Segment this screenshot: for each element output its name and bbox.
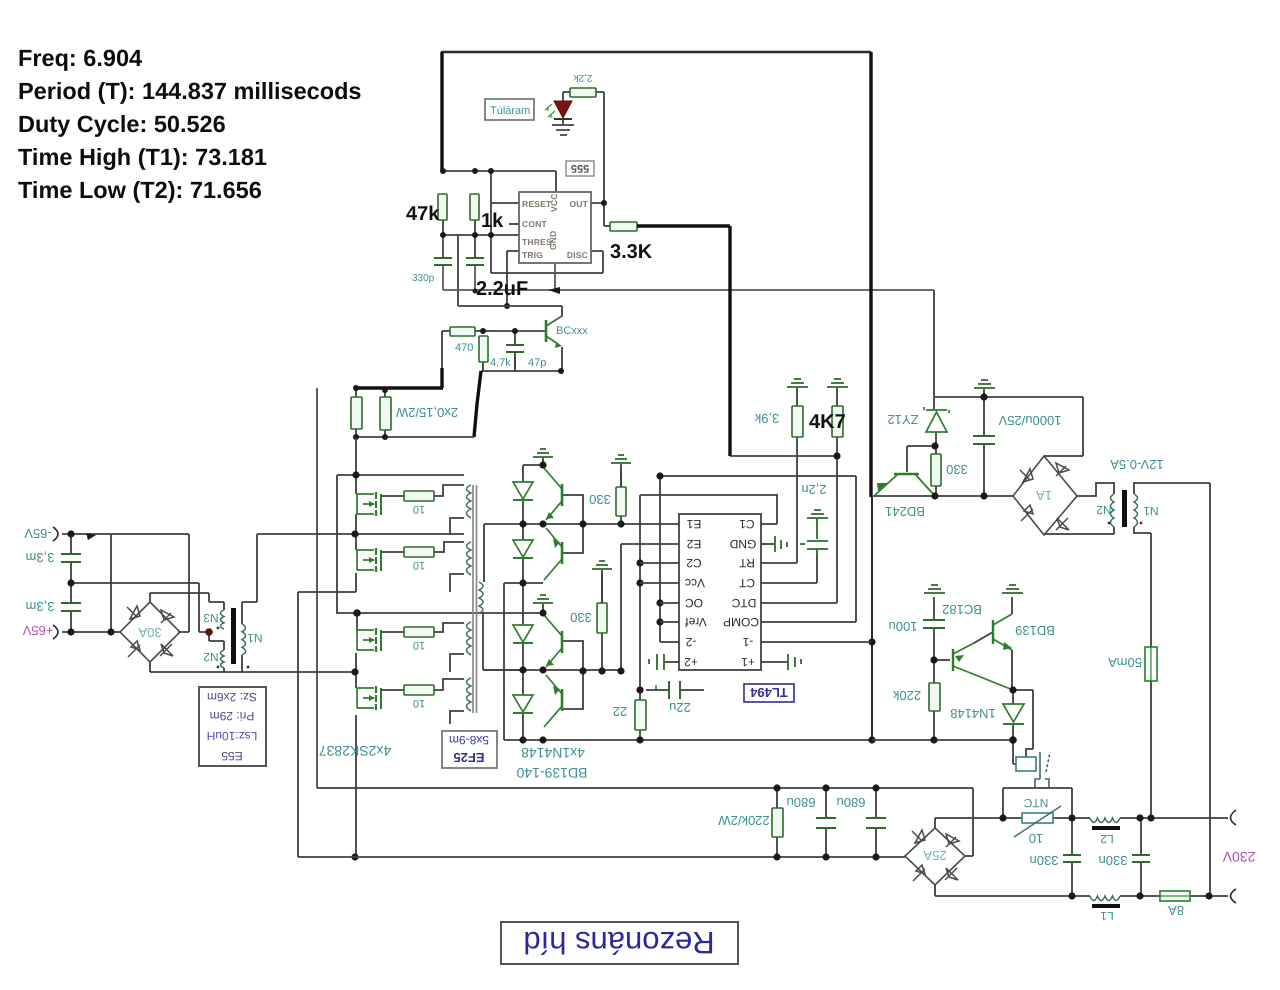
wire +65V rail 632 <box>62 631 209 633</box>
node dots diode block <box>519 461 875 743</box>
node dots mains <box>773 784 1212 899</box>
resistor 47k <box>438 194 447 220</box>
inductor L2 <box>1090 818 1120 823</box>
wire -2 stub <box>660 641 679 643</box>
node dots bc182 block <box>930 656 1016 743</box>
wire c1 loop riser x640 <box>639 495 641 740</box>
wire 680u a leads <box>825 788 827 857</box>
wire zener to node <box>935 432 937 446</box>
svg-text:-2: -2 <box>685 635 696 649</box>
diode D2 1N4148 <box>513 540 533 558</box>
capacitor 100u <box>923 620 945 628</box>
resistor 4K7 <box>832 406 843 437</box>
wire trig drop <box>507 251 519 306</box>
svg-text:220k: 220k <box>892 688 921 703</box>
capacitor 3,3m a <box>61 554 81 562</box>
wire lower mid row 670 <box>483 669 621 671</box>
wire bridge30 top jog to N3 <box>150 593 224 610</box>
wire zener feed x934 <box>933 290 935 409</box>
wire 220k leads <box>933 660 935 740</box>
wire bd139 emitter to node <box>1011 650 1013 690</box>
label box E55 <box>199 687 266 766</box>
svg-text:BD241: BD241 <box>885 504 925 519</box>
svg-text:CONT: CONT <box>522 219 547 229</box>
svg-text:TL494: TL494 <box>749 685 787 700</box>
node dots mosfet rails <box>351 471 360 860</box>
transformer EF25 coil3 <box>467 622 472 655</box>
diode D1 1N4148 <box>513 482 533 500</box>
wire gnd row 290 <box>443 235 934 291</box>
svg-text:25A: 25A <box>923 848 946 863</box>
ground above 1000u <box>974 380 995 388</box>
wire thres row <box>443 220 519 258</box>
svg-text:100u: 100u <box>889 619 918 634</box>
wire -1 stub <box>761 641 871 643</box>
svg-text:GND: GND <box>729 537 756 551</box>
wire 330a leads <box>620 470 622 524</box>
SEC:BC182 <box>872 597 1033 764</box>
transistor M2 2SK2837 <box>357 548 404 572</box>
resistor Rg1 10 <box>404 491 434 515</box>
diode 1N4148 relay <box>1003 704 1024 724</box>
phase dots 12V <box>1108 522 1111 525</box>
capacitor 330p <box>434 258 452 265</box>
wire N1 top to right rail <box>1134 483 1210 896</box>
capacitor 47p <box>506 345 524 352</box>
svg-text:N2: N2 <box>1096 503 1112 517</box>
wire mains live row 818 <box>935 817 1228 819</box>
resistor 330 lower <box>597 603 607 633</box>
wire node row 496 <box>873 495 1013 497</box>
wire relay left leg <box>1013 740 1016 764</box>
node dots 555 <box>440 168 607 309</box>
connector mains live <box>1231 810 1237 825</box>
svg-text:E55: E55 <box>221 749 243 763</box>
connector mains neutral <box>1231 889 1237 903</box>
transistor T4 BD140 <box>544 675 562 727</box>
capacitor 1000u/25V <box>973 436 995 444</box>
transformer 12V core <box>1122 490 1127 527</box>
svg-text:8A: 8A <box>1168 903 1184 918</box>
transistor M1 2SK2837 <box>357 492 404 516</box>
svg-text:330p: 330p <box>412 273 435 284</box>
wire C1 stub loop <box>761 495 777 524</box>
svg-text:N1: N1 <box>247 631 263 645</box>
svg-text:3,3m: 3,3m <box>26 550 55 565</box>
SEC:MAINS <box>298 788 1228 896</box>
svg-text:1000u/25V: 1000u/25V <box>998 413 1061 428</box>
capacitor +1 pin <box>788 654 801 670</box>
op-amp U2 TL494 body <box>679 514 761 670</box>
wire reset/disc riser <box>491 171 603 273</box>
transformer E55 core <box>231 608 236 664</box>
wire bc collector/emitter <box>561 306 563 371</box>
node dots right power <box>931 393 987 499</box>
wire gate steps c1 <box>434 485 464 496</box>
capacitor 22u <box>669 681 680 699</box>
svg-text:L2: L2 <box>1100 832 1114 846</box>
wire top supply rail <box>441 51 871 53</box>
wire coil2 return <box>450 574 464 592</box>
label box TL494 <box>744 684 794 702</box>
resistor 22 <box>635 700 646 730</box>
wire thick emitter drop <box>474 371 481 437</box>
wire cap stack <box>70 534 72 632</box>
svg-text:4x2SK2837: 4x2SK2837 <box>319 743 392 759</box>
capacitor 2.2uF <box>466 258 484 265</box>
svg-text:Freq: 6.904: Freq: 6.904 <box>18 45 142 71</box>
svg-text:N2: N2 <box>203 650 219 664</box>
thermistor NTC <box>1022 813 1053 823</box>
relay contact <box>1035 752 1049 788</box>
ground above 3,9k <box>787 379 808 387</box>
svg-text:47p: 47p <box>528 357 546 369</box>
wire bridge30 bottom jog <box>149 662 151 672</box>
wire DTC stub riser <box>761 437 837 603</box>
resistor 2,2k <box>570 88 596 97</box>
wire x337 drop <box>336 475 338 613</box>
wire coil1 return <box>450 518 464 534</box>
svg-text:Sz: 2x6m: Sz: 2x6m <box>207 690 257 704</box>
svg-text:2.2uF: 2.2uF <box>476 278 528 300</box>
svg-text:E1: E1 <box>686 517 701 531</box>
capacitor 330n b <box>1132 855 1150 862</box>
wire bc182-bd139 link <box>974 632 993 643</box>
wire m3 legs <box>356 613 357 672</box>
wire thres-to-306 jog <box>457 235 459 306</box>
wire led top <box>563 92 570 101</box>
wire secondary bottom lead <box>483 613 523 670</box>
transistor T3 BD139 <box>544 615 562 667</box>
svg-text:1k: 1k <box>481 210 504 232</box>
wire mid row 583 <box>504 583 543 740</box>
transformer EF25 coil1 <box>467 485 472 518</box>
wire dc+ rail 788 <box>317 787 973 789</box>
svg-text:BCxxx: BCxxx <box>556 325 588 337</box>
capacitor GND pin <box>775 536 787 552</box>
svg-text:EF25: EF25 <box>453 750 484 765</box>
wire secondary top lead <box>483 524 485 582</box>
resistor Rg4 10 <box>404 685 434 709</box>
wire bridge1A right step <box>1077 483 1114 496</box>
svg-text:BD139: BD139 <box>1015 623 1055 638</box>
bridge rectifier 30A <box>120 602 180 662</box>
svg-text:OUT: OUT <box>569 199 588 209</box>
resistor 470 <box>450 327 475 336</box>
svg-text:10: 10 <box>1029 831 1043 846</box>
wire 330c leads <box>935 446 937 496</box>
svg-text:4,7k: 4,7k <box>490 357 511 369</box>
svg-text:+65V: +65V <box>22 623 53 638</box>
wire GND stub cap <box>761 543 774 545</box>
wire fuse to mains <box>1150 681 1152 818</box>
wire N2 bottom <box>223 668 225 672</box>
wire 0V row 583 <box>71 583 199 632</box>
connector +65V <box>53 625 58 639</box>
wire gate steps c4 <box>434 679 464 690</box>
svg-text:230V: 230V <box>1222 849 1255 865</box>
wire bridge25 bottom jog <box>934 885 936 896</box>
wire -65V rail <box>62 534 189 632</box>
wire bridge1A bottom leg <box>1043 534 1045 535</box>
SEC:BCXXX <box>442 306 562 371</box>
wire 330n a column <box>1071 818 1073 896</box>
transformer 12V N2 coil <box>1111 494 1115 527</box>
capacitor +2 pin <box>649 654 664 670</box>
transistor BC182 <box>953 643 1013 690</box>
wire left drop x317 <box>316 388 318 788</box>
ground above 330 upper <box>611 455 631 463</box>
ground above 330 lower <box>592 561 612 569</box>
transformer E55 N3 coil <box>221 610 225 629</box>
svg-text:1A: 1A <box>1036 488 1052 503</box>
transistor T2 BD140 <box>544 528 562 580</box>
wire bridge1A top link <box>1044 455 1083 457</box>
svg-text:Rezonáns híd: Rezonáns híd <box>523 925 714 960</box>
wire 680u b leads <box>875 788 877 857</box>
transformer EF25 coil2 <box>467 542 472 575</box>
wire loop row 495 <box>640 494 778 496</box>
wire bridge25 top link <box>934 818 936 828</box>
label box Rezonans hid <box>501 922 738 964</box>
SEC:MOSFET <box>150 437 543 857</box>
svg-text:NTC: NTC <box>1023 796 1048 810</box>
wire thick 470-drop <box>356 368 443 388</box>
wire out node <box>591 92 610 226</box>
capacitor 330n a <box>1063 855 1081 862</box>
ground above T1 <box>533 449 553 457</box>
wire N1 top riser <box>242 534 257 624</box>
svg-text:TRIG: TRIG <box>522 250 543 260</box>
wire top node row <box>523 464 543 466</box>
wire E2 drop <box>620 544 622 671</box>
svg-text:DTC: DTC <box>731 596 756 610</box>
capacitor 2,2n <box>807 510 828 518</box>
wire N1 bottom to fuse <box>1134 527 1151 647</box>
ground above 4K7 <box>827 379 848 387</box>
wire 1000u stem <box>983 397 985 496</box>
svg-text:BD139-140: BD139-140 <box>516 765 587 781</box>
svg-text:Time Low (T2): 71.656: Time Low (T2): 71.656 <box>18 177 262 203</box>
wire N1 bottom <box>241 655 243 672</box>
fuse 50mA <box>1145 647 1157 681</box>
wire gate steps c2 <box>434 542 464 552</box>
svg-text:VCC: VCC <box>549 193 559 212</box>
wire 100u stem <box>933 597 935 660</box>
wire vref/oc riser x660 <box>659 476 661 642</box>
wire row 534 <box>257 533 464 535</box>
diode D4 1N4148 <box>513 695 533 713</box>
svg-text:Duty Cycle: 50.526: Duty Cycle: 50.526 <box>18 111 226 137</box>
transistor M4 2SK2837 <box>357 686 404 710</box>
resistor 330 right <box>931 454 941 486</box>
svg-text:22u: 22u <box>669 700 691 715</box>
capacitor 3,3m b <box>61 603 81 611</box>
transistor M3 2SK2837 <box>357 628 404 652</box>
ground above BD139 <box>1002 585 1023 593</box>
svg-text:4x1N4148: 4x1N4148 <box>521 745 585 761</box>
wire drive row E1 524 <box>484 523 679 525</box>
wire row 672 N1 return <box>150 671 356 673</box>
svg-text:50mA: 50mA <box>1108 655 1142 670</box>
svg-text:CT: CT <box>738 576 755 590</box>
wire resistor bottoms row 437 <box>356 388 474 437</box>
wire 220k2w leads <box>776 788 778 857</box>
wire thick left drop to 47k node <box>440 52 443 171</box>
svg-text:12V-0.5A: 12V-0.5A <box>1110 457 1164 472</box>
wire bottom row 740 <box>504 739 872 741</box>
svg-text:Túláram: Túláram <box>490 105 530 117</box>
wire coil3 return <box>450 654 464 672</box>
svg-text:N1: N1 <box>1143 504 1159 518</box>
svg-text:Pri: 29m: Pri: 29m <box>210 709 255 723</box>
svg-text:1N4148: 1N4148 <box>950 706 996 721</box>
node dots E55 <box>67 530 114 635</box>
svg-text:3.3K: 3.3K <box>610 241 653 263</box>
transistor BD139 <box>993 614 1012 650</box>
resistor 330 upper <box>616 487 626 516</box>
wire 470 left leg <box>442 331 450 370</box>
resistor Rb 0,15 <box>380 397 391 430</box>
transistor Q-BCxxx <box>546 316 562 348</box>
svg-text:Vref: Vref <box>685 615 707 629</box>
wire N2 bottom row <box>1044 527 1114 534</box>
wire 456 row <box>730 455 837 457</box>
wire diode column <box>522 465 524 740</box>
svg-text:Lsz:10uH: Lsz:10uH <box>207 729 258 743</box>
resistor 3,9k <box>792 406 803 437</box>
node dots bcxxx <box>353 328 564 440</box>
wire E2 stub <box>621 543 679 545</box>
node dot DTC-4K7 <box>833 452 840 459</box>
fuse 8A <box>1160 891 1190 901</box>
svg-text:ZY12: ZY12 <box>887 412 918 427</box>
resistor 220k/2W <box>772 808 783 837</box>
svg-text:330: 330 <box>946 462 968 477</box>
wire m2 legs <box>355 534 357 592</box>
ground above T3 <box>533 595 553 603</box>
svg-text:10: 10 <box>413 503 425 515</box>
svg-text:5x8-9m: 5x8-9m <box>449 733 489 747</box>
resistor 3.3K <box>610 222 637 231</box>
wire m1 drain/source legs <box>355 475 357 534</box>
svg-text:330n: 330n <box>1099 853 1128 868</box>
svg-text:220k/2W: 220k/2W <box>718 813 770 828</box>
wire supply row 475 <box>337 437 464 475</box>
wire cont stub <box>509 223 519 225</box>
wire RT stub riser <box>761 437 797 563</box>
wire gate steps c3 <box>434 623 464 632</box>
node center tap <box>205 628 213 636</box>
SEC:E55 <box>62 534 257 672</box>
wire base row 331 <box>475 330 545 332</box>
wire Vcc stub <box>640 582 679 584</box>
svg-text:OC: OC <box>685 596 703 610</box>
label box EF25 <box>442 731 497 768</box>
svg-text:2,2k: 2,2k <box>573 72 593 83</box>
wire row 613 <box>336 612 543 614</box>
ground above 100u <box>924 585 945 593</box>
label 555 box <box>566 161 594 176</box>
svg-text:680u: 680u <box>787 795 816 810</box>
svg-text:555: 555 <box>571 162 589 174</box>
transformer E55 N2 coil <box>221 650 225 668</box>
connector -65V <box>53 527 58 541</box>
wire center tap jog to N2 <box>209 632 224 650</box>
wire coil4 return <box>450 711 464 724</box>
resistor Rg2 10 <box>404 547 434 571</box>
wire dc- rail 857 <box>298 856 905 858</box>
wire base jogs lower <box>563 641 583 709</box>
ground led <box>552 119 574 135</box>
wire bd241 base <box>907 446 935 472</box>
svg-text:2,2n: 2,2n <box>801 482 826 497</box>
phase dots E55 <box>217 627 220 630</box>
wire bottom row to relay <box>872 739 1013 741</box>
SEC:TEXTBLOCK <box>18 45 362 203</box>
svg-text:C2: C2 <box>686 556 702 570</box>
wire row 476 comp loop <box>660 476 856 622</box>
wire center link x111 <box>110 534 112 632</box>
svg-text:47k: 47k <box>406 203 440 225</box>
bridge rectifier 25A <box>905 828 965 885</box>
svg-text:COMP: COMP <box>723 615 759 629</box>
diode D3 1N4148 <box>513 625 533 643</box>
svg-text:+2: +2 <box>684 655 698 669</box>
wire 330b leads <box>601 573 603 671</box>
wire Vref stub <box>660 621 679 623</box>
resistor 220k <box>929 683 940 711</box>
wire bc182 base <box>934 659 950 661</box>
resistor Ra 0,15 <box>351 397 362 429</box>
svg-text:BC182: BC182 <box>942 602 982 617</box>
zener ZY12 <box>924 407 949 432</box>
wire 330n b column <box>1140 818 1142 896</box>
wire bd139 collector riser <box>1011 597 1013 614</box>
SEC:555 <box>441 52 934 306</box>
wire +2 stub cap <box>664 661 679 663</box>
wire 555 gnd pin <box>554 263 556 289</box>
wire row 397 <box>935 397 1083 456</box>
svg-text:Time High (T1): 73.181: Time High (T1): 73.181 <box>18 144 267 170</box>
resistor Rg3 10 <box>404 627 434 651</box>
wire m2 source to dc- <box>298 592 356 857</box>
svg-text:N3: N3 <box>203 611 219 625</box>
svg-text:330: 330 <box>589 492 611 507</box>
wire bridge25 right riser <box>965 788 973 856</box>
wire node A supply row <box>443 171 556 192</box>
SEC:DIODES <box>483 465 872 740</box>
svg-text:330: 330 <box>570 610 592 625</box>
transformer EF25 core <box>473 485 477 713</box>
transformer 12V N1 coil <box>1134 494 1138 527</box>
capacitor 680u a <box>816 818 836 828</box>
svg-text:Vcc: Vcc <box>685 576 705 590</box>
svg-text:-1: -1 <box>742 635 753 649</box>
svg-text:22: 22 <box>613 704 627 719</box>
svg-text:3,3m: 3,3m <box>26 599 55 614</box>
transistor BD241 <box>875 474 934 495</box>
inductor L1 <box>1090 896 1120 901</box>
SEC:RIGHTPWR <box>873 290 1210 896</box>
resistor 4,7k <box>479 336 488 362</box>
resistor 1k <box>470 194 479 220</box>
svg-text:2x0,15/2W: 2x0,15/2W <box>395 405 458 420</box>
bridge rectifier 1A <box>1013 456 1077 535</box>
transformer E55 N1 coil <box>242 624 246 655</box>
wire m4 legs <box>355 672 357 857</box>
wire relay coil feed <box>1013 690 1033 757</box>
